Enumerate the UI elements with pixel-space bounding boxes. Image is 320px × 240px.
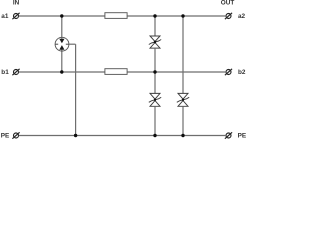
junction node a-line / V1: [153, 14, 156, 17]
wire GDT side electrode horizontal: [69, 43, 76, 45]
wire a-line down to V3 crossing b-line: [182, 16, 184, 93]
suppressor diode V2 center dot: [154, 99, 156, 101]
junction node a-line / GDT: [60, 14, 63, 17]
suppressor diode V1 center dot: [154, 41, 156, 43]
terminal PE right: [225, 132, 232, 138]
terminal PE left: [12, 132, 19, 138]
resistor R2: [105, 69, 127, 75]
wire a-line left segment: [19, 15, 105, 17]
suppressor diode V1 bar: [149, 40, 161, 45]
resistor R1: [105, 13, 127, 19]
wire b-line down to V2: [154, 72, 156, 93]
svg-text:PE: PE: [238, 132, 247, 139]
suppressor diode V3: [178, 93, 188, 106]
wire a-line to GDT top: [61, 16, 63, 39]
wire a-line right segment: [127, 15, 226, 17]
svg-text:OUT: OUT: [221, 0, 235, 7]
junction node a-line / V3 branch: [181, 14, 184, 17]
svg-text:a1: a1: [1, 13, 9, 20]
terminal a1: [12, 13, 19, 19]
wire V3 to PE-line: [182, 106, 184, 135]
junction node PE / GDT electrode: [74, 134, 77, 137]
svg-text:IN: IN: [13, 0, 20, 6]
junction node b-line / GDT: [60, 70, 63, 73]
suppressor diode V3 center dot: [182, 99, 184, 101]
svg-text:b2: b2: [238, 69, 246, 76]
suppressor diode V2 bar: [149, 97, 161, 102]
suppressor diode V1: [150, 36, 160, 48]
junction node PE / V2: [153, 134, 156, 137]
terminal b1: [12, 69, 19, 75]
svg-text:b1: b1: [1, 69, 9, 76]
wire b-line right segment: [127, 71, 226, 73]
svg-text:a2: a2: [238, 13, 246, 20]
wire PE-line: [19, 135, 226, 137]
gas discharge tube F1: [55, 37, 69, 51]
terminal a2: [225, 13, 232, 19]
junction node b-line / V1-V2: [153, 70, 156, 73]
wire a-line down to V1: [154, 16, 156, 36]
wire V1 to b-line: [154, 48, 156, 72]
junction node PE / V3: [181, 134, 184, 137]
wire GDT bottom to b-line: [61, 50, 63, 72]
suppressor diode V3 bar: [177, 97, 189, 102]
wire b-line left segment: [19, 71, 105, 73]
wire GDT side electrode vertical to PE: [75, 44, 77, 135]
svg-text:PE: PE: [1, 132, 10, 139]
wire V2 to PE-line: [154, 106, 156, 135]
terminal b2: [225, 69, 232, 75]
suppressor diode V2: [150, 93, 160, 106]
